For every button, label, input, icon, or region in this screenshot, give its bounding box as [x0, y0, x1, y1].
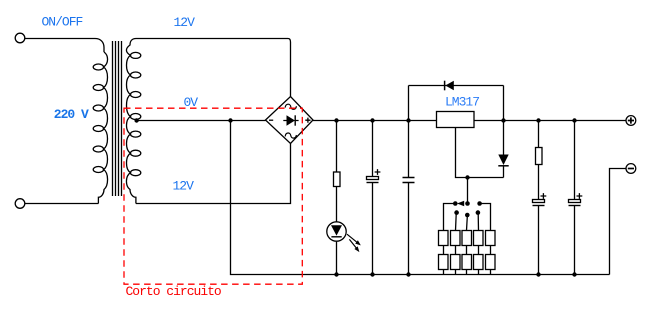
- node: [406, 118, 410, 122]
- wire: LM317 output to + terminal (positive rail right): [474, 120, 626, 122]
- short-circuit highlight box (red dashed): [124, 108, 302, 284]
- node: [536, 118, 540, 122]
- wire: ADJ junction to switch pole: [467, 178, 469, 204]
- wire: D2 right leg down through node to D3: [503, 86, 505, 155]
- resistor R2: [536, 148, 543, 165]
- resistor bank row2 col1: [439, 255, 449, 270]
- wire: secondary bottom 12V tap to bridge bottom: [136, 144, 291, 204]
- node: [406, 272, 410, 276]
- node: [501, 118, 505, 122]
- node: [572, 118, 576, 122]
- terminal + output: [626, 116, 636, 126]
- node: [572, 272, 576, 276]
- node: [536, 272, 540, 276]
- resistor bank row2 col5: [486, 255, 496, 270]
- node: [334, 272, 338, 276]
- svg-text:220 V: 220 V: [54, 107, 89, 122]
- wire: minus terminal to ground rail: [610, 169, 627, 275]
- svg-text:12V: 12V: [174, 15, 196, 30]
- svg-text:LM317: LM317: [445, 95, 479, 110]
- node: [370, 118, 374, 122]
- regulator U1 LM317: [437, 112, 475, 128]
- terminal J1 (220V top): [15, 33, 25, 43]
- diode D2 (protection, over LM317): [409, 81, 504, 91]
- diode D3 (vertical, near ADJ): [498, 155, 508, 178]
- svg-text:12V: 12V: [173, 179, 195, 194]
- resistor bank row1 col2: [451, 231, 461, 246]
- LED D1: [327, 222, 361, 252]
- wire: top terminal to transformer primary: [25, 39, 104, 53]
- wire: LED branch: [336, 121, 338, 275]
- svg-text:ON/OFF: ON/OFF: [42, 14, 83, 29]
- node: short-circuit junction: [228, 118, 232, 122]
- capacitor C1 (electrolytic): [367, 169, 381, 182]
- wire: C1 branch: [372, 121, 374, 275]
- wire: secondary top 12V tap to bridge top: [136, 39, 291, 97]
- bridge rectifier BR1: [266, 97, 314, 144]
- wire: LM317 ADJ pin down: [456, 128, 504, 178]
- wire: C2 branch + diode D2 left leg: [408, 86, 410, 275]
- wire: short circuit vertical to ground rail: [231, 121, 610, 275]
- wire: bridge right vertex to LM317 input (positive rail left): [313, 120, 437, 122]
- node: [370, 272, 374, 276]
- wire: primary bottom to bottom terminal: [25, 203, 99, 205]
- node: [334, 118, 338, 122]
- switch SW1 (selector): [453, 201, 482, 218]
- capacitor C2: [403, 178, 415, 183]
- wire: switch contact to R bank col5: [480, 204, 491, 231]
- wire: contacts to R bank cols 2-4: [456, 214, 479, 231]
- wire: bank inter-row + to rail stems: [444, 246, 491, 255]
- resistor bank row1 col5: [486, 231, 496, 246]
- capacitor C3 (electrolytic): [533, 193, 547, 205]
- wire: C4 branch: [574, 121, 576, 275]
- wire: switch contact to R bank col1: [444, 204, 456, 231]
- transformer T1 secondary winding: [126, 39, 136, 204]
- wire: R2 branch: [538, 121, 540, 275]
- node: center tap 0V: [134, 118, 138, 122]
- terminal - output: [626, 164, 636, 174]
- resistor bank row1 col3: [462, 231, 472, 246]
- capacitor C4 (electrolytic): [569, 193, 583, 205]
- resistor bank row2 col3: [462, 255, 472, 270]
- transformer T1 primary winding: [98, 52, 107, 204]
- transformer T1 core: [113, 41, 122, 196]
- wire: 0V center tap to bridge left vertex: [137, 120, 266, 122]
- resistor bank row2 col2: [451, 255, 461, 270]
- resistor bank row2 col4: [474, 255, 484, 270]
- svg-text:0V: 0V: [184, 95, 199, 110]
- resistor bank row1 col4: [474, 231, 484, 246]
- terminal J2 (220V bottom): [15, 199, 25, 209]
- resistor R1: [334, 172, 341, 187]
- node: ADJ junction: [465, 175, 469, 179]
- svg-text:Corto circuito: Corto circuito: [126, 284, 221, 299]
- resistor bank row1 col1: [439, 231, 449, 246]
